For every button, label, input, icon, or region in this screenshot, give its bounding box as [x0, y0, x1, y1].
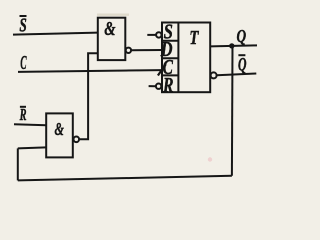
- svg-text:S: S: [19, 15, 26, 37]
- wire: DD1 output to D input of flip-flop: [131, 49, 162, 51]
- gate DD1 (NAND) box: [98, 18, 126, 60]
- wire: feedback bottom run: [18, 176, 232, 181]
- flip-flop pin-field divider: [177, 23, 179, 93]
- wire: Q output: [210, 45, 257, 46]
- wire: stub at R input of flip-flop: [149, 85, 156, 87]
- label S-bar (input): [19, 15, 26, 37]
- flip-flop T box: [162, 23, 210, 93]
- svg-text:&: &: [55, 119, 64, 139]
- wire: input S-bar to gate DD1: [13, 33, 98, 35]
- svg-text:R: R: [162, 73, 173, 97]
- gate DD2 (NAND) box: [46, 113, 73, 157]
- inversion bubble at Q-bar output: [211, 72, 217, 78]
- svg-text:&: &: [104, 18, 115, 40]
- wire: feedback vertical from Q junction down: [231, 46, 234, 176]
- svg-text:T: T: [189, 28, 199, 49]
- svg-text:Q: Q: [237, 26, 247, 46]
- junction dot on Q wire: [229, 43, 234, 48]
- wire: input R-bar to gate DD2: [14, 124, 46, 125]
- paper background: [0, 0, 261, 194]
- label R-bar (input): [19, 105, 27, 124]
- flip-flop row line S/D: [162, 40, 178, 42]
- dynamic-input slash on C pin: [158, 64, 166, 75]
- faint scan smudge above gate DD1: [97, 14, 129, 16]
- wire: stub at S input of flip-flop: [147, 34, 156, 36]
- flip-flop row line C/R: [162, 74, 178, 76]
- wire: Q-bar output: [217, 74, 256, 76]
- inversion bubble at DD1 output: [126, 48, 131, 53]
- pink scan stain: [208, 157, 212, 161]
- inversion bubble at DD2 output: [74, 137, 80, 143]
- svg-text:Q: Q: [238, 56, 247, 76]
- flip-flop row line D/C: [162, 57, 178, 59]
- wire: DD2 output up to DD1 second input, stub into DD1: [79, 53, 98, 139]
- wire: feedback into DD2 second input: [18, 147, 46, 148]
- wire: feedback left vertical: [17, 148, 19, 180]
- inversion bubble at S input: [156, 32, 161, 37]
- inversion bubble at R input: [156, 84, 161, 89]
- wire: input C to flip-flop C pin: [18, 70, 162, 72]
- label Q-bar (output): [238, 55, 247, 75]
- svg-text:C: C: [20, 52, 27, 74]
